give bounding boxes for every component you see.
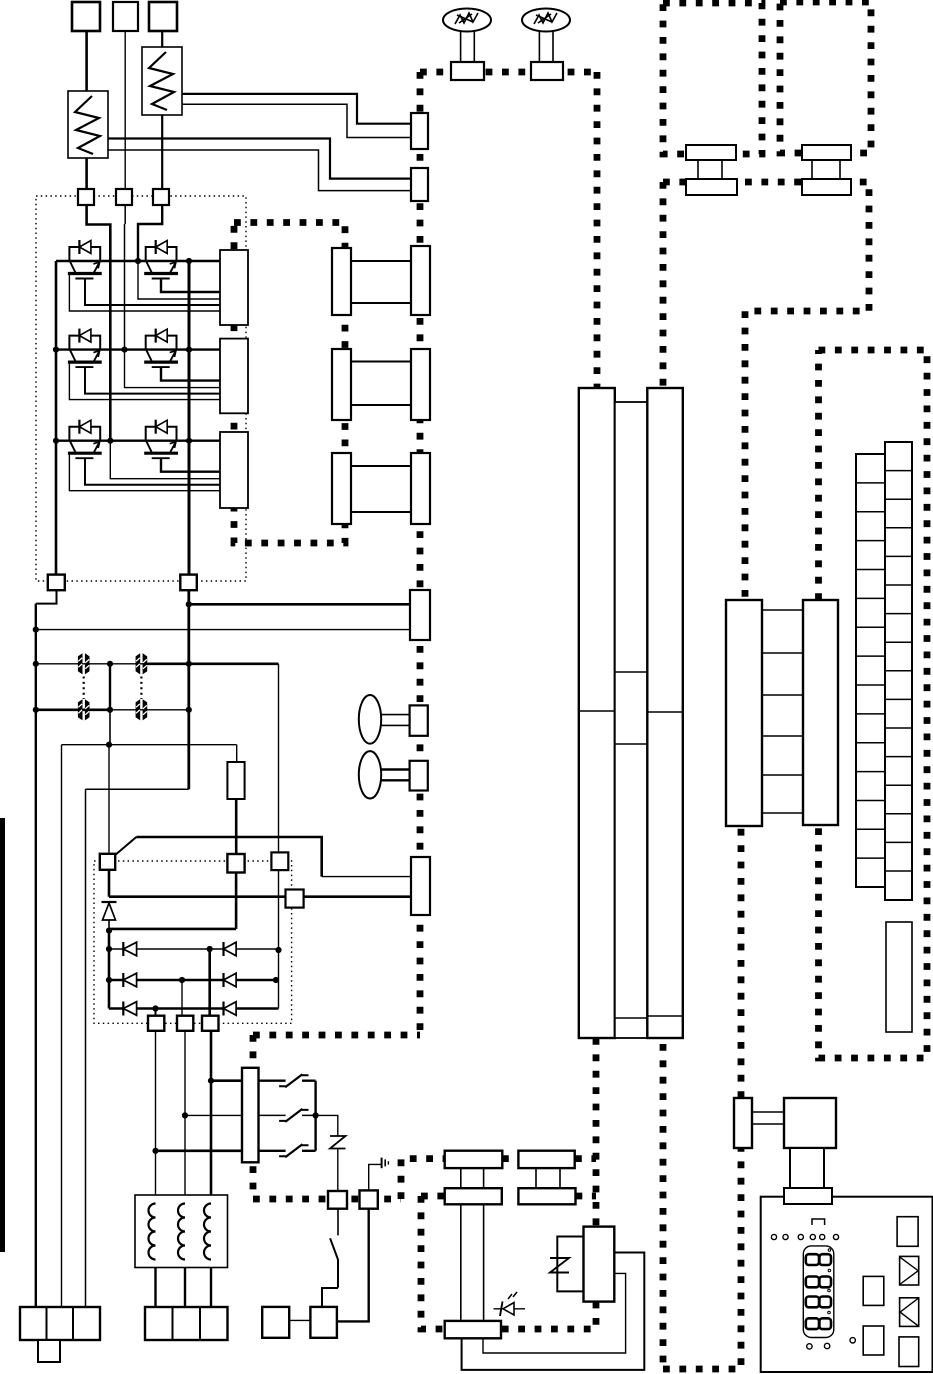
wire Q3 emitter to driver <box>69 362 220 400</box>
sensor square S11 <box>177 1016 193 1031</box>
wire rectifier row1 <box>109 946 279 952</box>
sensor square S13 <box>328 1191 347 1209</box>
wire Q1 emitter to driver <box>69 274 220 312</box>
terminal W <box>149 2 177 31</box>
wire R2 sense to CN1 pin2 <box>182 104 411 137</box>
thermostat TH1 contact <box>550 1237 584 1292</box>
wire: driver board dashed boundary <box>234 223 345 544</box>
keypad connector link <box>752 1112 784 1124</box>
wire phase sense row2 to driver <box>125 350 221 388</box>
sensor square S6 <box>227 854 244 873</box>
sensor square S12 <box>202 1016 219 1031</box>
connector fan M2 <box>531 62 563 80</box>
wire cap bus bottom row <box>110 707 192 713</box>
wire Q2 gate to driver <box>161 279 220 293</box>
wire DC+ jog to output rail <box>86 788 189 790</box>
resistor R3 <box>227 762 244 799</box>
wire cap bus top row <box>33 661 146 667</box>
wire: cable from CN11 bottom to column-A cable <box>576 1193 597 1200</box>
thermostat TH1 block <box>584 1227 615 1302</box>
transformer T2 primary <box>332 349 351 420</box>
wire TH1 outer loop <box>462 1253 645 1370</box>
wire row1 to S12 <box>208 949 211 1016</box>
pin header J1 right column <box>885 442 912 900</box>
node row2 bus <box>53 347 220 353</box>
diode D6 <box>224 1002 237 1016</box>
sensor square S8 <box>271 852 288 870</box>
switch block SW-B <box>310 1307 337 1338</box>
wire into F2 upper <box>322 876 411 878</box>
wire output rail down <box>85 789 87 1307</box>
ground <box>382 1158 389 1169</box>
pin header J1 left column <box>856 454 885 887</box>
thyristor SCR1 <box>102 902 117 929</box>
wire phase U into module <box>87 205 111 441</box>
transformer T2 secondary <box>411 349 430 420</box>
transformer T3 primary <box>332 453 351 524</box>
connector CN1 <box>411 113 428 149</box>
gate driver U3 <box>220 432 248 508</box>
7-segment display module <box>803 1246 834 1338</box>
connector CN7 <box>726 600 762 826</box>
wire to thermal fuse <box>316 1115 338 1134</box>
wire: cable below Z-block to CN12 <box>501 1302 596 1329</box>
connector CN10 upper <box>445 1151 503 1168</box>
switch block SW-A <box>262 1307 289 1338</box>
wire row3 to S10 <box>155 1009 157 1016</box>
keypad connector tab <box>784 1188 832 1204</box>
ellipsis more capacitors right <box>140 677 142 700</box>
wire S6 down to rectifier bus <box>235 873 238 929</box>
capacitor C4 <box>136 700 147 720</box>
connector fan M1 <box>451 62 484 80</box>
wire R1 sense to CN2 pin1 <box>108 139 411 179</box>
switch SW1 <box>322 1209 338 1307</box>
wire: IGBT power module dotted outline <box>36 196 246 581</box>
capacitor C3 <box>78 700 89 720</box>
keypad connector plug <box>734 1098 752 1148</box>
sensor square S4 <box>48 575 65 591</box>
wire tap T to input connector <box>208 1078 242 1084</box>
wire S14 to SW-B <box>337 1209 369 1322</box>
wire DC- sense to CN3 <box>33 627 411 633</box>
diode D4 <box>224 973 237 987</box>
wire Q1 gate to driver <box>85 279 220 306</box>
wire Q5 gate to driver <box>85 458 220 485</box>
wire phase sense row1 to driver <box>138 261 220 299</box>
diode D2 <box>224 942 237 956</box>
wire: rectifier module dotted outline <box>94 861 292 1023</box>
fan motor M1 <box>443 9 491 63</box>
connector RT1 <box>410 705 428 735</box>
connector CN10 lower <box>445 1188 502 1204</box>
wire: cable through column A down to Z-block <box>593 1038 600 1227</box>
wire mid rail to S7 <box>108 745 110 854</box>
node row3 bus <box>53 438 220 444</box>
wire tap S to input connector <box>182 1112 242 1118</box>
transformer T1 secondary <box>411 246 430 315</box>
wire R1 to CT1 <box>85 158 88 189</box>
transistor Q3 with flyback diode <box>68 329 102 368</box>
wire: cable y=1199 through fuse squares <box>253 1196 401 1203</box>
connector CN8 <box>803 600 838 825</box>
wire row2 to S11 <box>181 980 183 1016</box>
connector CN3 <box>410 590 430 640</box>
wire R2 to CT3 <box>161 115 163 189</box>
connector CN11 lower <box>518 1188 575 1204</box>
binding mark <box>0 818 5 1252</box>
wire diag from S7 <box>115 837 136 855</box>
sensor square S9 <box>286 890 304 908</box>
wire: display board boundary <box>819 350 928 1058</box>
wire rectifier row2 <box>109 977 279 983</box>
wire: cable corner up to connector CN10 <box>401 1159 445 1199</box>
transformer T1 primary <box>332 248 351 315</box>
diode D3 <box>123 973 136 987</box>
wire cap bus top row thick <box>146 661 279 667</box>
wire: dashed box fan module 2 <box>780 2 871 153</box>
sensor square S5 <box>180 575 197 591</box>
button B4 up-arrow <box>900 1256 919 1285</box>
wire SW link <box>289 1319 310 1321</box>
inductor box L1 <box>135 1195 228 1268</box>
wire T1 links <box>351 261 411 303</box>
wire from terminal W <box>161 31 163 47</box>
wire rectifier right bus <box>275 664 281 1009</box>
gate driver U2 <box>220 339 248 414</box>
wire AC phase R down <box>155 1031 157 1197</box>
transistor Q2 with flyback diode <box>144 240 178 279</box>
wire T2 links <box>351 362 411 406</box>
resistor R2 <box>142 47 182 115</box>
thermistor sensor RT2 <box>359 751 410 798</box>
transistor Q6 with flyback diode <box>144 420 178 459</box>
wire CN7-CN8 ladder <box>762 610 803 813</box>
wire DC- rail <box>55 261 58 575</box>
wire tap R to input connector <box>152 1148 242 1154</box>
wire top relay feed <box>136 837 321 877</box>
thermistor sensor RT1 <box>359 695 410 744</box>
wire AC phase T down <box>210 1031 213 1197</box>
thermal fuse F1 <box>330 1135 346 1152</box>
terminal V <box>113 2 138 31</box>
terminal block TB1 <box>20 1307 100 1340</box>
button B1 <box>863 1276 884 1305</box>
component G1 <box>886 922 912 1032</box>
wire T3 links <box>351 466 411 512</box>
wire left sense down <box>61 745 63 1307</box>
button B6 <box>899 1337 919 1367</box>
wire SCR to rectifier bus <box>106 928 236 934</box>
wire Q6 gate to driver <box>161 458 220 472</box>
wire: cable bottom U-turn to keypad connector <box>663 1148 741 1369</box>
wire from terminal U <box>85 31 88 91</box>
wire: cable from inverter sense connectors up and across fan connectors <box>420 69 597 76</box>
wire Q5 emitter to driver <box>69 453 220 491</box>
wire Q4 gate to driver <box>161 367 220 381</box>
ellipsis more capacitors left <box>83 677 85 700</box>
transistor Q4 with flyback diode <box>144 329 178 368</box>
connector CN2 <box>411 168 428 201</box>
board column C <box>647 388 683 1038</box>
wire rectifier row3 <box>109 1005 279 1011</box>
keypad connector stem <box>790 1148 824 1188</box>
wire: cable keypad connector up to CN7 bottom <box>738 826 745 1098</box>
button B3 <box>897 1217 918 1247</box>
wire: cable vertical left run x=420 (CN1/CN2, CT conns, F2 straddle it) <box>417 72 424 1035</box>
board column B <box>615 402 648 1038</box>
connector CN11 link <box>536 1168 560 1188</box>
wire L1 to TB2 <box>156 1268 212 1308</box>
wire DC- to left rail <box>36 590 57 603</box>
wire rectifier left bus <box>106 931 112 1009</box>
sensor square S10 <box>148 1016 164 1031</box>
wire breaker row1 <box>259 1074 316 1087</box>
wire R3 to S6 <box>235 799 238 854</box>
wire mid rail down to soft start <box>109 710 111 745</box>
current sensor CT1 <box>78 189 94 205</box>
wire cap mid link <box>109 664 111 710</box>
node row1 bus <box>56 258 220 264</box>
connector CN4 input <box>242 1068 259 1163</box>
wire R2 sense to CN1 pin1 <box>182 94 411 124</box>
connector F2 <box>411 857 430 915</box>
transistor Q5 with flyback diode <box>68 420 102 459</box>
wire: cable from CN11 top to column-A cable <box>575 1155 596 1162</box>
terminal TB1 earth <box>38 1340 60 1362</box>
wire phase V into module <box>124 205 127 350</box>
wire lower sense bus <box>62 742 237 748</box>
wire fuse to S13 <box>337 1152 339 1192</box>
wire: cable x=421 from CN10 bottom to CN12 <box>421 1196 445 1329</box>
capacitor C1 <box>78 654 89 674</box>
wire: cable vertical x=253 beside input connector <box>250 1035 257 1199</box>
diode D1 <box>123 942 136 956</box>
wire: cable between CN10 and CN11 tops <box>502 1155 518 1162</box>
wire: cable through column C down to bottom-right loop <box>660 388 667 1369</box>
connector CN11 upper <box>518 1151 574 1168</box>
current sensor CT2 <box>116 189 132 205</box>
connector RT2 <box>410 761 428 791</box>
wire: main board boundary left edge <box>660 182 667 388</box>
sensor square S7 <box>100 854 115 870</box>
wire breaker bus <box>313 1081 319 1151</box>
transformer T3 secondary <box>411 453 430 524</box>
wire: dashed box fan module 1 <box>663 3 762 154</box>
keypad connector body <box>784 1098 836 1148</box>
resistor R1 <box>68 91 108 158</box>
panel circles <box>807 1338 856 1350</box>
wire DC+ sense to CN3 <box>186 601 411 607</box>
button B5 down-arrow <box>900 1298 919 1327</box>
wire R1 sense to CN2 pin2 <box>108 150 411 191</box>
icon bracket <box>812 1219 825 1225</box>
current sensor CT3 <box>153 189 169 205</box>
wire CN10 to CN12 pair <box>461 1204 484 1321</box>
capacitor C2 <box>136 654 147 674</box>
wire precharge bypass to F2 <box>109 870 411 897</box>
wire breaker row2 <box>259 1109 316 1122</box>
wire: cable drop from fan bus to board column A <box>594 72 601 388</box>
terminal block TB2 <box>145 1307 228 1340</box>
board column A <box>579 388 615 1038</box>
wire to charge resistor <box>236 745 238 762</box>
keypad panel <box>761 1197 933 1372</box>
wire S14 to ground <box>369 1164 382 1190</box>
wire: cable horizontal y=1035 to lower-left <box>253 1032 420 1039</box>
button B2 <box>863 1326 884 1355</box>
gate driver U1 <box>220 250 248 325</box>
wire Q3 gate to driver <box>85 367 220 394</box>
connector CN6 fan2 <box>802 145 851 195</box>
wire cap bus bottom row thick <box>33 707 113 713</box>
LED LED1 <box>494 1292 526 1316</box>
connector CN10 link <box>461 1168 484 1188</box>
wire breaker row3 <box>259 1144 316 1157</box>
wire: main board boundary top edge <box>663 182 869 600</box>
wire DC+ rail <box>188 261 191 575</box>
fan motor M2 <box>522 9 570 63</box>
transistor Q1 with flyback diode <box>68 240 102 279</box>
wire from terminal V <box>124 31 126 189</box>
wire DC+ rail down <box>187 590 190 789</box>
wire TH1 inner loop <box>483 1273 626 1353</box>
terminal U <box>72 2 100 31</box>
connector CN12 <box>445 1321 501 1338</box>
wire AC phase S down <box>184 1031 186 1197</box>
connector CN5 fan1 <box>686 145 737 195</box>
diode D5 <box>123 1002 136 1016</box>
wire phase sense row3 to driver <box>110 441 220 479</box>
LED row <box>771 1234 838 1239</box>
sensor square S14 <box>360 1190 378 1208</box>
wire phase W into module <box>138 205 162 261</box>
wire left rail down <box>35 604 37 1307</box>
